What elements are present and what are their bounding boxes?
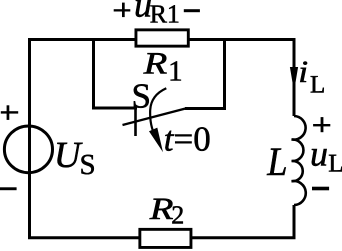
svg-text:L: L — [328, 148, 342, 177]
label + (US polarity) — [1, 105, 18, 120]
label US — [54, 135, 96, 181]
inductor L coil — [292, 116, 306, 205]
label minus (US polarity) — [0, 187, 17, 190]
current iL arrowhead — [290, 67, 298, 92]
switch S motion arc — [150, 88, 166, 133]
resistor R2 — [140, 229, 191, 247]
label uL — [310, 134, 342, 178]
label uR1 — [134, 0, 180, 29]
label S — [132, 77, 151, 116]
switch S motion arrowhead — [149, 128, 163, 153]
label + (uR1 polarity) — [114, 3, 131, 18]
label iL — [298, 54, 325, 99]
svg-text:R: R — [142, 46, 167, 81]
svg-text:R1: R1 — [150, 0, 180, 29]
label minus (uR1 polarity) — [184, 9, 200, 12]
svg-text:2: 2 — [171, 201, 184, 230]
wire: switch branch left drop — [94, 40, 138, 109]
svg-text:L: L — [310, 72, 325, 99]
svg-text:S: S — [80, 149, 96, 181]
svg-text:i: i — [298, 54, 308, 89]
svg-text:t=0: t=0 — [164, 119, 211, 158]
label + (uL polarity) — [313, 117, 330, 132]
wire: outer loop top/left/bottom/right — [30, 40, 295, 238]
svg-text:R: R — [148, 191, 173, 226]
switch S contact tick — [134, 106, 137, 136]
wire: switch branch right drop — [185, 40, 225, 109]
resistor R1 — [136, 30, 188, 46]
switch S blade — [123, 109, 186, 126]
svg-text:S: S — [132, 77, 151, 116]
label R1 — [142, 46, 182, 88]
svg-text:L: L — [266, 139, 287, 184]
svg-text:1: 1 — [168, 55, 183, 87]
voltage source US circle — [4, 126, 52, 173]
svg-text:u: u — [310, 134, 328, 174]
label t=0 — [164, 119, 211, 158]
label L — [266, 139, 287, 184]
label R2 — [148, 191, 184, 230]
label minus (uL polarity) — [312, 187, 329, 191]
